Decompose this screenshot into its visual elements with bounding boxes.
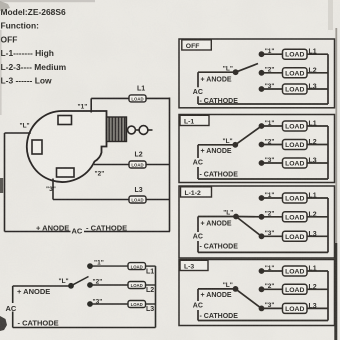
pull chain bead 2 — [139, 126, 148, 135]
panel L-1-2 wire load L2 to bus — [307, 216, 328, 218]
bottom diagram wire node 2 to load — [90, 284, 128, 286]
panel L-3 node 2 — [259, 286, 265, 292]
panel L-3 wire node 2 to load — [262, 288, 283, 290]
wire bottom AC right segment — [84, 231, 170, 233]
switch S1 terminal 3 pad — [57, 168, 75, 177]
panel L-1-2 wire anode — [198, 216, 236, 218]
panel L-3 node 1 — [259, 268, 265, 274]
panel L-1 wire node 1 to load — [262, 125, 283, 127]
panel L-1 load L3 — [283, 158, 308, 168]
bottom diagram node 3 — [87, 301, 93, 307]
bottom diagram wire anode top — [13, 285, 71, 287]
panel OFF wire node 2 to load — [262, 72, 283, 74]
panel OFF switch arm — [236, 64, 258, 73]
panel L-3 load L2 — [283, 284, 308, 294]
panel L-1 wire AC vertical — [197, 145, 199, 158]
panel OFF wire cathode — [198, 103, 328, 105]
wire terminal1 riser — [90, 98, 92, 112]
panel L-3 wire AC vertical — [197, 289, 199, 301]
panel OFF wire anode — [198, 71, 236, 73]
wire terminal3 drop — [52, 179, 54, 200]
panel OFF label box — [182, 40, 212, 50]
pull chain tail — [148, 129, 153, 131]
panel L-1 load L1 — [283, 121, 308, 131]
panel L-3 wire load L1 to bus — [307, 270, 328, 272]
panel L-3 node 3 — [259, 306, 265, 312]
panel L-1 wire load L1 to bus — [307, 125, 328, 127]
panel L-3 load L1 — [283, 266, 308, 276]
load L1 left diagram — [129, 95, 146, 102]
panel L-1-2 wire AC vertical — [197, 217, 199, 233]
panel L-1-2 wire cathode — [198, 251, 328, 253]
panel L-1-2 wire bus — [327, 198, 329, 252]
pull chain bead 1 — [128, 126, 136, 134]
panel L-3 wire anode — [198, 288, 236, 290]
wire top to load L1 — [91, 97, 169, 99]
panel OFF load L1 — [283, 49, 308, 59]
panel L-3 wire cathode — [198, 320, 328, 322]
panel L-3 load L3 — [283, 303, 308, 313]
panel L-3 wire node 1 to load — [262, 270, 283, 272]
panel L-1-2 node 3 — [259, 233, 265, 239]
panel OFF load L3 — [283, 84, 308, 94]
panel OFF wire load L1 to bus — [307, 53, 328, 55]
panel OFF load L2 — [283, 68, 308, 78]
bottom diagram wire cathode — [13, 327, 156, 329]
panel L-1-2 label box — [181, 187, 212, 197]
panel L-1-2 node 1 — [259, 195, 265, 201]
panel L-1-2 wire node 3 to load — [262, 235, 283, 237]
panel L-1-2 load L1 — [283, 193, 308, 203]
panel L-1 wire load L2 to bus — [307, 144, 328, 146]
bottom diagram wire load L1 to bus — [146, 265, 156, 267]
panel OFF node 1 — [259, 51, 265, 57]
pull chain link — [135, 129, 139, 131]
panel L-1-2 wire load L1 to bus — [307, 197, 328, 199]
panel L-1 node 2 — [259, 142, 265, 148]
panel OFF wire load L3 to bus — [307, 88, 328, 90]
panel L-1-2 wire node 2 to load — [262, 216, 283, 218]
bottom diagram load L1 — [128, 263, 146, 270]
wire terminal2 to load L2 — [94, 164, 170, 166]
panel L-1 wire anode — [198, 144, 235, 146]
panel L-1 node 1 — [259, 123, 265, 129]
panel L-1 wire load L3 to bus — [307, 162, 328, 164]
panel L-3 node L — [233, 286, 239, 292]
bottom diagram wire load L3 to bus — [146, 303, 156, 305]
bottom diagram node L — [68, 283, 74, 289]
bottom diagram node 2 — [87, 282, 93, 288]
panel L-1 box — [179, 115, 335, 183]
panel L-1 wire node 2 to load — [262, 144, 283, 146]
wire left AC vertical — [4, 133, 6, 232]
panel L-3 wire load L2 to bus — [307, 288, 328, 290]
panel OFF node L — [233, 69, 239, 75]
panel L-1-2 load L3 — [283, 231, 308, 241]
panel OFF box — [179, 39, 335, 108]
switch S1 threaded stem — [107, 117, 127, 142]
panel OFF node 3 — [259, 86, 265, 92]
bottom diagram wire AC vertical — [12, 286, 14, 303]
panel L-1 wire cathode — [198, 178, 328, 180]
panel L-3 wire bus — [327, 271, 329, 321]
bottom diagram load L3 — [128, 301, 146, 308]
bottom diagram wire load L2 to bus — [146, 284, 156, 286]
panel OFF wire AC vertical — [197, 72, 199, 87]
panel L-1-2 wire node 1 to load — [262, 197, 283, 199]
panel OFF wire bus — [327, 54, 329, 104]
panel OFF wire node 3 to load — [262, 88, 283, 90]
switch S1 terminal 1 pad — [58, 116, 72, 125]
panel L-3 switch arm — [236, 289, 262, 309]
panel OFF wire load L2 to bus — [307, 72, 328, 74]
panel L-1 node 3 — [259, 160, 265, 166]
load L3 left diagram — [129, 196, 146, 203]
bottom diagram switch arm — [71, 277, 89, 286]
wire to load L3 — [53, 199, 170, 201]
wire L terminal feed — [5, 132, 31, 134]
bottom diagram load L2 — [128, 282, 146, 289]
panel L-1 wire node 3 to load — [262, 162, 283, 164]
switch S1 terminal L pad — [32, 140, 42, 154]
bottom diagram wire node 1 to load — [90, 265, 128, 267]
wire right bus left diagram — [169, 98, 171, 232]
bottom diagram node 1 — [87, 263, 93, 269]
switch S1 body — [27, 111, 107, 182]
panel L-1 load L2 — [283, 140, 308, 150]
panel L-1 wire bus — [327, 126, 329, 179]
panel L-1 node L — [232, 142, 238, 148]
panel L-1 label box — [180, 115, 209, 125]
bottom diagram wire bus — [155, 266, 157, 327]
panel OFF node 2 — [259, 70, 265, 76]
panel L-3 label box — [180, 260, 208, 270]
panel L-3 wire load L3 to bus — [307, 307, 328, 309]
panel L-1-2 box — [179, 186, 335, 258]
panel L-3 wire node 3 to load — [262, 307, 283, 309]
panel OFF wire node 1 to load — [262, 53, 283, 55]
load L2 left diagram — [129, 161, 146, 168]
panel L-1 switch arm — [235, 126, 261, 145]
panel L-3 box — [179, 260, 335, 326]
panel L-1-2 node 2 — [259, 214, 265, 220]
bottom diagram wire node 3 to load — [90, 303, 128, 305]
panel L-1-2 wire load L3 to bus — [307, 235, 328, 237]
wire bottom AC left segment — [5, 231, 71, 233]
panel L-1-2 switch arm — [236, 216, 262, 218]
panel L-1-2 load L2 — [283, 212, 308, 222]
panel L-1-2 node L — [233, 214, 239, 220]
